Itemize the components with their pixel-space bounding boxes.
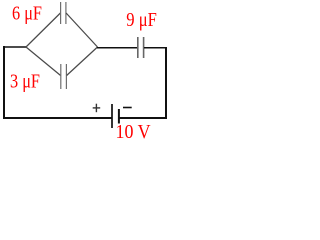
wire bottom left segment <box>3 117 112 119</box>
wire middle horizontal to C3 <box>97 47 137 49</box>
wire bottom right segment <box>119 117 167 119</box>
capacitor C2 3uF right plate <box>65 64 67 89</box>
wire right edge <box>165 47 167 118</box>
capacitor C3 9uF left plate <box>137 37 139 58</box>
battery V1 short plate (-) <box>118 109 120 124</box>
wire lower-left diagonal <box>26 47 61 76</box>
capacitor C2 3uF left plate <box>60 64 62 89</box>
wire upper-right diagonal <box>66 13 97 47</box>
wire from C3 to right edge <box>144 47 167 49</box>
minus sign <box>123 107 132 109</box>
svg-text:6 μF: 6 μF <box>12 3 42 24</box>
wire left edge <box>3 46 5 118</box>
capacitor C1 6uF left plate <box>60 2 62 24</box>
plus sign <box>93 104 101 113</box>
wire top-left horizontal to node A <box>3 46 27 48</box>
battery V1 long plate (+) <box>111 104 113 128</box>
svg-text:3 μF: 3 μF <box>10 72 40 93</box>
wire upper-left diagonal <box>26 13 60 47</box>
capacitor C3 9uF right plate <box>143 37 145 58</box>
svg-text:10 V: 10 V <box>116 122 151 143</box>
svg-text:9 μF: 9 μF <box>126 10 157 31</box>
wire lower-right diagonal <box>67 47 98 76</box>
capacitor C1 6uF right plate <box>65 2 67 24</box>
